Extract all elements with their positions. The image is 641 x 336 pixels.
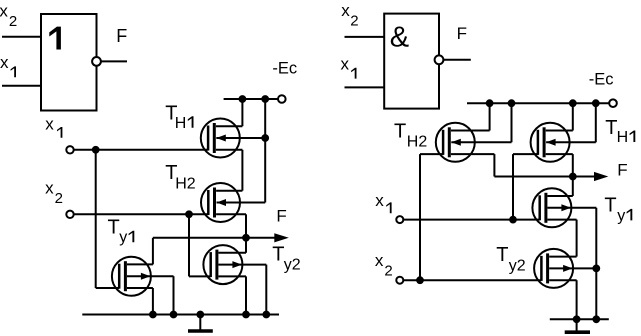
svg-text:y2: y2 xyxy=(509,257,526,274)
wire T_y2 source stub (right) xyxy=(549,279,576,281)
transistor T_y1 (right) xyxy=(532,188,571,227)
wire T_y1 drain up to node F (right) xyxy=(572,177,574,197)
wire T_H1 drain stub (right) xyxy=(546,130,573,132)
label T_y2 (left) xyxy=(272,244,301,274)
junction dot supply/T_H2 drain (right) xyxy=(486,100,493,107)
wire x2 line to T_H2 gate xyxy=(74,213,209,215)
terminal -Ec (right) xyxy=(609,99,617,107)
label T_H2 (left) xyxy=(165,162,195,193)
junction dot supply/T_H1 drain (right) xyxy=(569,100,576,107)
svg-text:H: H xyxy=(175,115,187,132)
wire x1 branch down to T_y1 gate xyxy=(95,150,97,288)
wire T_y1 source down to ground xyxy=(152,288,154,315)
wire T_H1 substrate to right rail xyxy=(216,137,265,139)
transistor T_H2 (left) xyxy=(201,183,240,222)
arrow F output (left) xyxy=(274,233,289,242)
ground symbol (right) xyxy=(565,319,590,332)
junction dot supply/right rail xyxy=(262,96,269,103)
svg-text:-Ec: -Ec xyxy=(589,70,614,88)
wire T_H1 drain stub xyxy=(216,125,243,127)
svg-text:-Ec: -Ec xyxy=(272,59,297,77)
gate symbol box U1 (OR-NOT '1') xyxy=(41,14,97,111)
wire T_H2 source down to node F xyxy=(245,214,247,238)
wire T_y1 drain stub (right) xyxy=(548,195,573,197)
svg-text:T: T xyxy=(272,244,284,266)
label x1 (U2 bottom input) xyxy=(341,55,357,79)
label -Ec (left supply) xyxy=(272,59,297,77)
junction dot T_y2 source/ground xyxy=(243,311,250,318)
wire T_H1 source down to node F (right) xyxy=(572,154,574,176)
wire T_H2 gate lead (right) xyxy=(420,153,444,155)
wire gate U2 output xyxy=(443,59,470,61)
wire T_y1 substrate down to ground (right) xyxy=(595,208,597,319)
wire T_y2 substrate (right) xyxy=(549,267,596,269)
wire supply to T_H1 drain xyxy=(241,99,243,126)
svg-text:y2: y2 xyxy=(284,257,301,274)
wire x2 branch to T_y2 gate bar xyxy=(189,275,211,277)
label x2 (right circuit input) xyxy=(375,251,393,279)
junction dot node F (left) xyxy=(243,234,250,241)
svg-text:&: & xyxy=(390,21,409,53)
wire T_H2 drain stub xyxy=(216,190,242,192)
label T_y2 (right) xyxy=(496,244,525,275)
svg-text:2: 2 xyxy=(55,190,63,207)
junction dot x1/T_y1 branch xyxy=(92,146,99,153)
svg-text:x: x xyxy=(0,53,9,72)
wire T_y1 source stub (right) xyxy=(548,219,577,221)
svg-text:2: 2 xyxy=(350,13,358,30)
junction dot T_y1 source/ground xyxy=(150,311,157,318)
wire T_H1 substrate up to supply (right) xyxy=(595,103,597,142)
junction dot x2/T_y2 branch xyxy=(186,211,193,218)
wire gate U1 input x2 xyxy=(2,36,41,38)
junction dot T_y2 substrate/rail (right) xyxy=(593,265,600,272)
wire T_H2 source stub xyxy=(216,213,246,215)
wire T_H2 substrate to right rail xyxy=(217,202,266,204)
wire T_y2 source down to ground (right) xyxy=(576,280,578,319)
svg-text:F: F xyxy=(116,26,127,46)
svg-text:2: 2 xyxy=(9,13,17,30)
wire T_H2 substrate (right) xyxy=(451,141,511,143)
terminal x2 (right) xyxy=(396,277,403,284)
svg-text:x: x xyxy=(45,114,54,133)
inversion bubble U1 xyxy=(92,57,101,66)
wire T_y2 source down to ground xyxy=(245,276,247,314)
wire ground rail (left) xyxy=(82,314,279,316)
wire gate U2 input x2 xyxy=(345,36,385,38)
svg-text:T: T xyxy=(604,194,616,216)
junction dot supply/T_H2 substrate (right) xyxy=(508,100,515,107)
wire T_y1 source stub xyxy=(127,287,153,289)
wire T_y2 substrate xyxy=(219,264,267,266)
label -Ec (right supply) xyxy=(589,70,614,88)
svg-text:x: x xyxy=(341,55,350,74)
wire T_y1 source down to T_y2 drain (right) xyxy=(576,220,578,257)
label T_H2 (right) xyxy=(394,120,427,150)
ground symbol (left) xyxy=(188,315,213,332)
wire gate U1 output xyxy=(101,60,127,62)
transistor T_H2 (right) xyxy=(436,123,475,162)
svg-text:T: T xyxy=(108,217,120,239)
wire T_H1 source down to T_H2 drain xyxy=(241,150,243,191)
svg-text:x: x xyxy=(0,2,8,21)
wire T_y2 drain stub (right) xyxy=(549,256,576,258)
wire T_H2 source stub (right) xyxy=(451,153,495,155)
wire T_H1 gate down to x1 (right) xyxy=(512,154,514,220)
label T_y1 (right) xyxy=(604,194,632,224)
svg-text:x: x xyxy=(375,191,384,210)
svg-text:F: F xyxy=(617,160,627,179)
transistor T_y1 (left) xyxy=(112,257,151,296)
svg-text:x: x xyxy=(45,179,54,198)
svg-text:F: F xyxy=(276,206,286,225)
junction dot x1/T_H1 gate (right) xyxy=(510,216,517,223)
wire node F horizontal (left) xyxy=(153,237,277,239)
wire T_H1 source stub (right) xyxy=(546,153,573,155)
transistor T_y2 (left) xyxy=(203,245,242,284)
wire T_H1 source stub xyxy=(216,149,243,151)
arrow F output (right) xyxy=(594,172,608,181)
svg-text:2: 2 xyxy=(384,262,392,279)
terminal x2 (left) xyxy=(66,211,73,218)
wire T_y1 drain stub xyxy=(127,263,153,265)
wire right rail down to T_H2 substrate xyxy=(264,99,266,203)
wire -Ec supply rail (left) xyxy=(224,98,279,100)
junction dot ground symbol/rail (left) xyxy=(197,311,204,318)
wire x1 branch to T_y1 gate bar xyxy=(96,287,120,289)
wire x1 line to T_H1 gate xyxy=(74,149,209,151)
junction dot supply/T_H1 drain xyxy=(239,96,246,103)
junction dot node F (right) xyxy=(569,173,576,180)
wire T_H1 substrate (right) xyxy=(546,141,596,143)
transistor T_H1 (left) xyxy=(201,119,240,158)
junction dot T_H1 substrate/right rail xyxy=(262,135,269,142)
junction dot x2/T_H2 gate (right) xyxy=(417,277,424,284)
wire T_y2 drain stub xyxy=(219,252,247,254)
label F (U1 output) xyxy=(116,26,127,46)
wire x2 line to T_y2 gate (right) xyxy=(403,279,541,281)
junction dot T_y1 substrate/ground xyxy=(170,311,177,318)
wire T_H2 drain up to supply (right) xyxy=(489,103,491,130)
label x1 (left circuit input) xyxy=(45,114,62,138)
svg-text:H: H xyxy=(617,129,629,146)
label T_H1 (left) xyxy=(165,102,193,132)
svg-text:x: x xyxy=(375,251,384,270)
wire T_y1 substrate xyxy=(127,275,174,277)
wire gate U1 input x1 xyxy=(2,85,41,87)
wire T_H1 drain up to supply (right) xyxy=(572,103,574,130)
wire T_H2 source down (right) xyxy=(493,154,495,176)
svg-text:H2: H2 xyxy=(175,176,196,193)
transistor T_H1 (right) xyxy=(531,123,570,162)
wire T_y1 substrate down to ground xyxy=(173,276,175,314)
terminal -Ec (left) xyxy=(278,95,286,103)
wire ground rail (right) xyxy=(550,318,609,320)
junction dot supply/T_H1 substrate (right) xyxy=(592,100,599,107)
wire gate U2 input x1 xyxy=(345,86,385,88)
junction dot substrate rail/ground (right) xyxy=(593,316,600,323)
wire x1 line to T_y1 gate (right) xyxy=(403,219,539,221)
transistor T_y2 (right) xyxy=(534,249,573,288)
inversion bubble U2 xyxy=(435,55,444,64)
label F (left circuit output) xyxy=(276,206,286,225)
wire T_H2 drain stub (right) xyxy=(451,130,490,132)
junction dot T_y2 source/ground (right) xyxy=(573,316,580,323)
wire T_H2 gate down to x2 (right) xyxy=(419,154,421,280)
svg-text:T: T xyxy=(394,120,406,142)
label x1 (U1 bottom input) xyxy=(0,53,16,77)
wire T_H1 gate lead (right) xyxy=(513,153,538,155)
label T_y1 (left) xyxy=(108,217,135,247)
svg-text:F: F xyxy=(457,24,467,43)
wire T_y2 substrate down to ground xyxy=(265,265,267,315)
wire T_y1 drain up to node F xyxy=(152,238,154,265)
svg-text:y: y xyxy=(617,207,625,224)
label x1 (right circuit input) xyxy=(375,191,391,213)
wire x2 branch down xyxy=(188,214,190,276)
wire T_y2 source stub xyxy=(219,275,247,277)
svg-text:y: y xyxy=(119,229,127,246)
label x2 (U1 top input) xyxy=(0,2,17,30)
svg-text:T: T xyxy=(496,244,508,266)
wire T_y1 substrate (right) xyxy=(548,207,597,209)
terminal x1 (right) xyxy=(396,216,403,223)
junction dot T_y2 substrate/ground xyxy=(263,311,270,318)
terminal x1 (left) xyxy=(66,146,73,153)
label F (right circuit output) xyxy=(617,160,627,179)
label F (U2 output) xyxy=(457,24,467,43)
wire T_H2 substrate up to supply (right) xyxy=(511,103,513,142)
label x2 (left circuit input) xyxy=(45,179,63,208)
wire T_y2 drain up to node F xyxy=(245,238,247,253)
label T_H1 (right) xyxy=(605,117,635,146)
wire node F horizontal (right) xyxy=(494,176,596,178)
svg-text:x: x xyxy=(341,1,350,20)
svg-text:H2: H2 xyxy=(407,133,428,150)
wire -Ec supply rail (right) xyxy=(467,102,609,104)
gate symbol box U2 (AND-NOT '&amp;') xyxy=(384,14,439,109)
label x2 (U2 top input) xyxy=(341,1,358,30)
